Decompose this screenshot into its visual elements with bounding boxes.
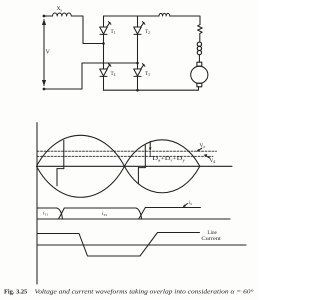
line current trace xyxy=(37,233,200,257)
label id with arrow xyxy=(183,201,192,207)
junction dot (T2/T3 midpoint) xyxy=(136,62,139,65)
voltage source V double arrow xyxy=(42,19,46,86)
drop arrow (overlap voltage drop) xyxy=(149,142,152,152)
overlap level 2 xyxy=(138,167,145,169)
svg-text:Da+Dr+Dy: Da+Dr+Dy xyxy=(152,156,185,162)
wire (top terminal to Xs) xyxy=(44,15,53,17)
svg-text:Va: Va xyxy=(200,143,206,149)
thyristor current pulse iT1 top xyxy=(37,207,57,209)
waveform zero axis (voltage) xyxy=(37,165,232,167)
thyristor current next pulse top xyxy=(145,207,200,209)
inductor Xs xyxy=(53,13,72,16)
svg-text:T1: T1 xyxy=(111,29,116,35)
svg-text:T2: T2 xyxy=(145,29,150,35)
commutation crossover 1 rising xyxy=(58,208,64,219)
inductor (armature L) xyxy=(197,42,201,55)
junction dot (T1/T4 midpoint) xyxy=(102,42,105,45)
sine arch upper (second half-cycle) xyxy=(125,140,200,166)
thyristor T3 xyxy=(134,64,145,77)
node B (source bottom terminal dot) xyxy=(43,88,46,91)
thyristor T1 xyxy=(100,22,111,35)
commutation crossover 1 falling xyxy=(57,208,63,219)
wire (left rail middle) xyxy=(103,34,105,69)
junction dot (bottom rail at T3) xyxy=(136,89,139,92)
wire (Xs to jog down into bridge left midpoint) xyxy=(71,16,103,44)
line current zero axis xyxy=(37,244,246,246)
dashed line Va xyxy=(37,150,217,152)
wire (left rail lower) xyxy=(103,76,105,90)
wire (right rail upper) xyxy=(137,16,139,27)
waveform vertical axis xyxy=(36,123,38,284)
svg-text:V: V xyxy=(46,50,51,56)
thyristor T4 xyxy=(100,64,111,77)
svg-text:id: id xyxy=(189,201,192,206)
svg-text:T4: T4 xyxy=(111,71,116,77)
wire (bridge top rail) xyxy=(104,15,160,17)
resistor (armature R) xyxy=(198,24,203,42)
svg-text:Fig. 3.25: Fig. 3.25 xyxy=(4,289,27,296)
commutation crossover 2 falling xyxy=(136,208,142,219)
wire (right rail lower) xyxy=(137,76,139,90)
commutation step 1 (jump to upper sine) xyxy=(63,140,65,168)
motor brush top xyxy=(197,62,202,66)
label Da+Dr+Dy with bracket xyxy=(150,152,152,157)
sine arch lower (second half-cycle) xyxy=(125,166,200,192)
motor brush bottom xyxy=(197,83,202,87)
commutation step 2 (jump to upper sine) xyxy=(144,145,146,167)
commutation step 2 (jump from lower sine to zero) xyxy=(137,168,139,184)
wire (left rail upper) xyxy=(103,16,105,27)
inductor (dc link choke) xyxy=(159,13,170,16)
thyristor T2 xyxy=(134,22,145,35)
dashed line Vd xyxy=(37,155,213,157)
overlap level 1 xyxy=(57,168,64,170)
svg-text:Voltage and current waveforms: Voltage and current waveforms taking ove… xyxy=(35,289,255,296)
label Line Current xyxy=(201,230,221,242)
svg-text:iT1: iT1 xyxy=(43,212,48,217)
thyristor current bottom line xyxy=(37,218,230,220)
node A (source top terminal dot) xyxy=(43,15,46,18)
commutation crossover 2 rising xyxy=(139,208,146,219)
svg-text:Current: Current xyxy=(201,236,221,242)
svg-text:iT2: iT2 xyxy=(102,212,107,217)
sine arch upper (first half-cycle) xyxy=(37,135,125,166)
svg-text:Line: Line xyxy=(207,230,217,236)
label Vd with arrow xyxy=(204,154,216,164)
wire (choke to load corner) xyxy=(170,16,200,24)
svg-text:Xs: Xs xyxy=(57,6,63,12)
commutation step 1 (jump from lower sine to zero) xyxy=(56,169,58,186)
motor armature M xyxy=(191,66,208,83)
wire (right rail middle) xyxy=(137,34,139,69)
svg-text:T3: T3 xyxy=(145,71,150,77)
label Va with arrow xyxy=(197,143,206,152)
wire (bottom terminal to bridge right midpoint, crossover) xyxy=(44,63,138,89)
wire (L to brush) xyxy=(198,55,200,62)
svg-text:Vd: Vd xyxy=(210,158,216,164)
sine arch lower (first half-cycle) xyxy=(37,166,125,197)
thyristor current pulse iT2 top xyxy=(64,207,136,209)
wire (bridge bottom rail to motor) xyxy=(104,87,199,91)
